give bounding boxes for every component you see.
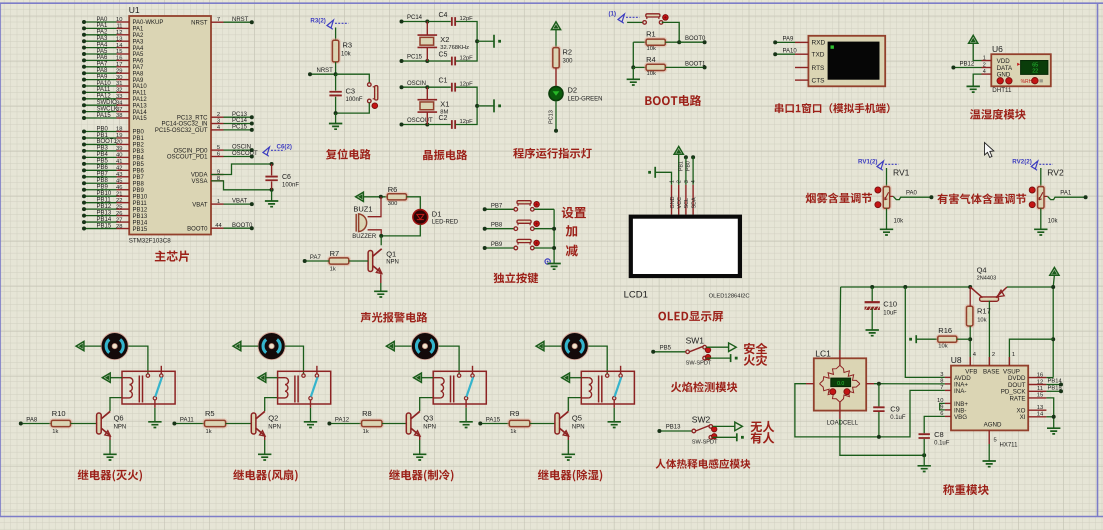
svg-text:PB15: PB15 [97,223,112,229]
svg-text:VDD: VDD [997,58,1011,65]
U1 pin 39 (PB3) / net PB3 [117,150,130,152]
wire to ground [477,105,494,107]
svg-text:SW1: SW1 [686,335,705,345]
wire pot to ground [1040,208,1042,229]
svg-text:25: 25 [116,204,122,210]
svg-text:PA1: PA1 [1060,191,1072,197]
svg-text:44: 44 [215,223,222,229]
svg-text:C2: C2 [439,115,448,122]
U1 pin 43 (PB7) / net PB7 [117,176,130,178]
mouse cursor [985,143,994,158]
svg-text:PA9: PA9 [133,78,145,84]
svg-text:3: 3 [217,119,220,125]
svg-text:NRST: NRST [317,68,334,74]
LC1 right pin to INA+ [866,383,874,385]
svg-text:PA7: PA7 [97,62,109,68]
DHT11 leds [997,78,1003,84]
svg-text:PB7: PB7 [133,175,145,181]
svg-text:10: 10 [116,17,122,23]
relay contacts [606,374,609,377]
label 独立按键 [494,272,539,283]
svg-text:D1: D1 [432,210,442,219]
wire collector to coil [420,398,434,411]
svg-text:10k: 10k [341,52,352,58]
svg-text:PA14: PA14 [133,110,148,116]
wire to base [71,423,97,425]
relay box [581,371,634,404]
svg-text:PA1: PA1 [97,23,109,29]
U8 pin 9 (INB-) [945,409,951,411]
crystal body [418,100,438,112]
wire VSUP [1009,339,1053,365]
relay NC stub [316,366,318,374]
net BOOT1 terminal [703,65,707,69]
node bus mid [475,39,479,43]
power terminal (indicator) [551,22,560,30]
node C3 bottom [334,111,338,115]
vertical power drop right [1052,287,1054,378]
svg-text:VDDA: VDDA [191,173,208,179]
svg-text:VBG: VBG [954,414,967,421]
svg-text:29: 29 [116,68,122,74]
svg-text:SW-SPDT: SW-SPDT [686,360,712,366]
wire power to VDD [973,43,981,61]
svg-text:X2: X2 [440,35,449,44]
node NRST/R3/C3 [334,72,338,76]
sheet border top [0,2,1103,4]
relay coil [278,378,286,398]
wire R6 to D1 [407,197,421,210]
svg-text:7: 7 [217,17,220,23]
wire power to motor [84,345,102,347]
ground (relay) [304,422,317,428]
power terminal (motor) [76,342,84,351]
svg-text:41: 41 [116,159,122,165]
wire power to coil [421,377,433,379]
wire Q4 emitter to power [1007,286,1053,288]
label 安全 [744,343,768,355]
label OLED显示屏 [658,311,723,321]
node Q4/R17 [968,285,972,289]
net PB14 terminal (DOUT) [1046,384,1061,386]
capacitor C8 0.1uF [924,416,945,433]
crystal body [418,35,438,47]
U1 pin 14 (PA4) / net PA4 [117,47,130,49]
svg-text:PB9: PB9 [491,242,503,248]
wire DVDD to power [1046,377,1053,379]
relay contacts [457,374,460,377]
svg-text:Q3: Q3 [423,414,433,423]
svg-text:2: 2 [983,63,986,69]
U1 pin 33 (PA12) / net PA12 [117,98,130,100]
motor [411,333,438,360]
svg-text:PA5: PA5 [97,49,109,55]
svg-text:C5: C5 [439,52,448,59]
svg-text:RV1: RV1 [893,168,910,178]
svg-text:27: 27 [116,217,122,223]
wire collector to coil [568,398,581,411]
wire throw2 to rail stub [706,357,730,359]
label 有害气体含量调节 [937,193,1026,204]
relay box [433,371,486,404]
U1 pin 29 (PA8) / net PA8 [117,72,130,74]
svg-text:OSCOUT: OSCOUT [232,151,258,157]
relay lever (cyan) [467,377,474,396]
probe (1) [618,14,625,22]
svg-text:38: 38 [116,113,122,119]
U1 pin 41 (PB5) / net PB5 [117,163,130,165]
svg-text:RV2(2): RV2(2) [1012,159,1032,166]
wiper wire to net PA0 [890,195,894,197]
svg-text:PA9: PA9 [783,37,795,43]
wire right bus [456,87,478,124]
U1 pin 11 (PA1) / net PA1 [117,27,130,29]
svg-text:12: 12 [1037,379,1043,385]
svg-text:OSCIN_PD0: OSCIN_PD0 [173,148,208,154]
wire ground to GND pin [655,172,671,185]
ground (C6) [265,201,278,207]
U1 pin 26 (PB13) / net PB13 [117,215,130,217]
svg-text:PA3: PA3 [97,36,109,42]
OLED pin 3 SCL [685,185,687,215]
U1 pin 7 (NRST) [211,21,224,23]
svg-text:VBAT: VBAT [192,202,208,208]
svg-text:LC1: LC1 [815,349,831,359]
svg-text:PB5: PB5 [133,162,145,168]
node bus mid [475,104,479,108]
svg-text:10k: 10k [1048,219,1059,225]
net OSCIN terminal [402,86,428,88]
svg-text:C6(2): C6(2) [277,144,292,151]
wire to ground [632,67,634,79]
svg-text:R2: R2 [563,48,573,57]
pot arrows (red) [1029,187,1035,193]
svg-text:PA10: PA10 [97,81,112,87]
svg-text:R16: R16 [938,326,952,335]
svg-text:R3: R3 [343,41,353,50]
U8 pin 2 (BASE) [988,357,990,366]
wire motor to relay NO [285,346,303,374]
svg-text:NPN: NPN [114,425,127,431]
U1 pin 37 (PA14) / net SWCLK [117,111,130,113]
svg-text:BOOT1: BOOT1 [685,61,706,67]
wire power to coil [266,377,278,379]
svg-text:PC15: PC15 [232,125,248,131]
node OSCOUT/crystal [425,123,429,127]
svg-text:X1: X1 [440,99,449,108]
svg-text:R9: R9 [510,409,520,418]
ground (DHT11) [967,86,980,92]
label 有人 [751,432,775,443]
svg-text:NPN: NPN [268,425,281,431]
U1 pin 27 (PB14) / net PB14 [117,221,130,223]
svg-text:BOOT0: BOOT0 [685,36,706,42]
svg-text:18: 18 [116,127,122,133]
net OSCOUT wire [224,156,252,158]
ground (Q5) [562,454,575,460]
svg-text:PA12: PA12 [335,417,350,423]
relay coil [122,378,130,398]
push button (BOOT) [643,21,647,25]
svg-text:Q6: Q6 [114,414,124,423]
terminal pin RXD [795,41,808,43]
svg-text:3: 3 [684,180,690,183]
label 火焰检测模块 [671,382,737,393]
svg-text:Q5: Q5 [572,414,582,423]
U8 pin 14 (XI) [1028,416,1046,418]
U1 pin 13 (PA3) / net PA3 [117,40,130,42]
wire OSCIN row [427,86,451,88]
U1 pin 9 (VDDA) [211,174,224,176]
svg-text:PA2: PA2 [97,30,109,36]
svg-text:PA3: PA3 [133,39,145,45]
ground (crystal) [493,99,495,112]
svg-text:26: 26 [116,211,122,217]
net PB7 terminal [485,208,514,210]
svg-text:PB15: PB15 [1048,386,1062,392]
wire button to C3 bottom [336,103,370,113]
svg-text:PA10: PA10 [133,84,148,90]
net PA11 terminal [174,423,204,425]
svg-text:1: 1 [217,199,220,205]
LC1 top pin to rail [839,358,841,365]
relay box [278,371,331,404]
svg-text:R17: R17 [977,307,991,316]
wire to base [530,423,555,425]
svg-text:D2: D2 [568,86,578,95]
ground (C10) [866,330,879,336]
svg-text:PB9: PB9 [133,188,145,194]
svg-text:20: 20 [116,140,122,146]
net PC15 wire [224,129,252,131]
net PC15 terminal [402,60,428,62]
svg-text:43: 43 [116,172,122,178]
ground (relay) [459,422,472,428]
wire R2 to D2 [555,68,557,87]
wire VDDA to C6 top [211,164,272,175]
svg-text:PC15-OSC32_OUT: PC15-OSC32_OUT [155,128,208,134]
svg-text:32.768KHz: 32.768KHz [440,45,469,51]
net PC14 terminal [402,21,428,23]
svg-text:PB14: PB14 [133,220,148,226]
node BOOT0 [677,40,681,44]
svg-text:2: 2 [677,180,683,183]
svg-text:PA11: PA11 [180,417,194,423]
svg-text:PB11: PB11 [133,201,148,207]
wire motor to relay NO [439,346,460,374]
svg-text:OLED12864I2C: OLED12864I2C [709,294,750,300]
probe RV1(2) [877,161,884,169]
svg-text:300: 300 [388,201,398,207]
svg-text:4: 4 [983,69,986,75]
svg-text:PA4: PA4 [133,46,145,52]
svg-text:0.1uF: 0.1uF [890,415,906,421]
ground (crystal) [493,35,495,48]
node C9 bottom [877,435,881,439]
svg-text:14: 14 [1037,412,1044,418]
U1 pin 12 (PA2) / net PA2 [117,34,130,36]
svg-text:12: 12 [116,30,122,36]
svg-text:RTS: RTS [812,65,826,72]
svg-text:PA12: PA12 [133,97,148,103]
svg-text:22: 22 [1032,69,1038,75]
resistor R16 10k [916,338,938,340]
svg-text:PA13: PA13 [133,103,148,109]
svg-text:1: 1 [983,56,986,62]
svg-text:PA1: PA1 [133,27,145,33]
svg-text:NRST: NRST [191,20,208,26]
svg-text:22: 22 [116,198,122,204]
svg-text:PB10: PB10 [97,191,112,197]
svg-text:14: 14 [116,43,123,49]
wire button to bus [534,228,554,230]
svg-text:PB1: PB1 [678,161,684,171]
relay lever (cyan) [155,377,162,396]
U8 pin 16 (DVDD) [1028,377,1046,379]
svg-text:PB10: PB10 [133,194,148,200]
U8 pin 7 (INA-) [945,389,951,391]
svg-text:PB13: PB13 [97,210,112,216]
U1 pin 30 (PA9) / net PA9 [117,79,130,81]
svg-text:PB12: PB12 [133,207,148,213]
svg-text:PB0: PB0 [133,130,145,136]
svg-text:21: 21 [116,191,122,197]
svg-text:PA8: PA8 [133,71,145,77]
relay NC stub [620,366,622,374]
svg-text:RXD: RXD [812,40,826,47]
power terminal (coil) [562,373,570,382]
ground (reset) [329,124,342,130]
terminal PC13 [554,129,558,133]
wire R7 to base [349,260,368,262]
svg-text:R6: R6 [388,185,398,194]
wire power to motor [394,345,412,347]
node VSUP [1051,337,1055,341]
bridge display [831,378,851,387]
net PB12 terminal [953,67,981,69]
svg-text:VBAT: VBAT [232,199,248,205]
ground (Q2) [258,454,271,460]
wire throw1 to arrow [713,425,735,427]
net PA9 terminal [775,41,795,43]
svg-text:2N4403: 2N4403 [977,276,997,282]
origin marker [545,259,550,264]
DHT11 pin 4 GND [982,73,992,75]
node C6 bottom [270,188,274,192]
relay NC stub [472,366,474,374]
svg-text:100nF: 100nF [346,97,363,103]
U8 pin 3 (AVDD) [945,376,951,378]
ground (AGND) [983,461,996,467]
U8 pin 1 (VSUP) [1008,357,1010,366]
svg-text:PA15: PA15 [133,116,148,122]
label 程序运行指示灯 [513,148,592,159]
label BOOT电路 [645,95,701,106]
node C8 bottom [922,453,926,457]
svg-text:OSCIN: OSCIN [232,145,251,151]
label 设置 [562,207,586,219]
svg-text:(1): (1) [609,11,617,18]
svg-text:13: 13 [1037,405,1043,411]
svg-text:PB12: PB12 [97,204,112,210]
resistor R1 10k [633,41,646,43]
svg-text:PB7: PB7 [491,203,503,209]
ground (C8) [918,466,931,472]
svg-text:10uF: 10uF [883,311,897,317]
svg-text:PA6: PA6 [97,55,109,61]
svg-text:15: 15 [1037,393,1043,399]
U8 pin 13 (XO) [1028,409,1046,411]
capacitor C10 10uF [870,285,874,289]
svg-text:33: 33 [116,94,122,100]
loadcell arrows (red) [830,389,836,395]
net PB5 terminal [653,351,685,353]
U1 pin 21 (PB10) / net PB10 [117,195,130,197]
svg-text:PA2: PA2 [133,33,145,39]
wire common to ground [465,400,467,408]
svg-text:PA9: PA9 [97,74,109,80]
resistor R6 300 [386,193,408,202]
svg-text:LED-GREEN: LED-GREEN [568,97,603,103]
wire power to coil [569,377,581,379]
svg-text:PA11: PA11 [133,91,147,97]
svg-text:PC15: PC15 [407,55,423,61]
wire power to R6 [363,196,387,198]
wire right bus [456,22,478,62]
node key2 [552,227,556,231]
node OSCIN/crystal [425,85,429,89]
wire collector to coil [265,398,278,411]
svg-text:PB15: PB15 [133,227,148,233]
OLED pin 1 GND [671,185,673,215]
label 无人 [751,421,775,432]
wire common to ground [613,400,615,408]
OLED display LCD1 [629,215,742,279]
svg-text:1k: 1k [330,267,336,273]
U8 pin 6 (VBG) [945,415,951,417]
wire to ground [477,40,494,42]
wire PC15 row [427,60,451,62]
svg-text:SW2: SW2 [692,415,711,425]
svg-text:R4: R4 [646,55,656,64]
wire GND to ground [973,74,981,86]
svg-text:OSCOUT_PD1: OSCOUT_PD1 [167,155,208,161]
svg-text:NPN: NPN [572,425,585,431]
buzzer leads [368,197,381,217]
relay lever (cyan) [615,377,622,396]
wire motor to relay NO [128,346,148,374]
net PA8 terminal [21,423,52,425]
svg-text:SDA: SDA [691,197,697,208]
power terminal (coil) [414,373,422,382]
crystal leads [426,87,428,99]
capacitor C2 12pF [452,120,455,129]
U1 pin 45 (PB8) / net PB8 [117,182,130,184]
wire PC14 row [427,21,451,23]
net PB8 terminal [485,228,514,230]
wire to base [382,423,406,425]
U1 pin 42 (PB6) / net PB6 [117,169,130,171]
sheet border right [1097,3,1099,516]
resistor R7 1k [328,257,350,266]
DHT11 pin 2 DATA [982,67,992,69]
svg-text:1k: 1k [52,429,58,435]
svg-text:PB1: PB1 [133,136,145,142]
U1 pin 1 (VBAT) [211,203,224,205]
DHT11 pin 1 VDD [982,60,992,62]
svg-text:CTS: CTS [812,77,826,84]
U1 pin 5 (OSCIN_PD0) [211,149,224,151]
